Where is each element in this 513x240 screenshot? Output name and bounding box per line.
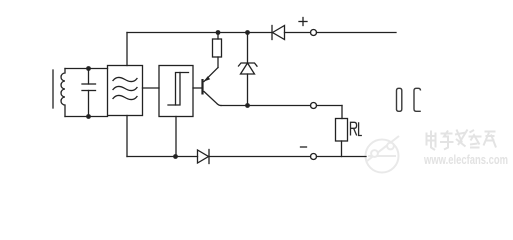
terminal circle +: [311, 30, 317, 36]
diode D1 (top, cathode left): [272, 26, 285, 40]
oscillator block U1: [108, 66, 143, 116]
diode D3 (bottom, cathode right): [198, 150, 210, 164]
+ rail top wire: [127, 32, 396, 34]
terminal circle middle: [311, 103, 317, 109]
capacitor C1: [82, 69, 96, 117]
wire: box1 bottom to bottom rail: [126, 116, 128, 157]
wire: RL to bottom rail: [341, 141, 343, 157]
middle output rail: [221, 105, 342, 107]
wire: box1 to box2: [143, 87, 160, 89]
wire: box2 bottom to bottom rail: [175, 117, 177, 157]
terminal circle -: [311, 154, 317, 160]
wire: rail corner down to RL: [341, 106, 343, 119]
oscillator symbol tildes: [113, 77, 137, 99]
Schmitt hysteresis symbol: [168, 73, 189, 106]
label RL: [351, 122, 362, 135]
node: zener bottom junction: [245, 103, 250, 108]
DC label letter D: [397, 88, 402, 111]
watermark logo circle: [366, 136, 400, 173]
DC label letter C: [414, 88, 421, 111]
node: zener top junction: [245, 30, 250, 35]
Schmitt trigger block U2: [159, 66, 193, 117]
wire: box1 top to + rail: [126, 33, 128, 66]
node: box2 bottom rail junction: [173, 154, 178, 159]
wire top: coil to box1: [65, 68, 108, 70]
zener diode D2: [239, 33, 258, 106]
node: R1 top junction: [216, 30, 221, 35]
resistor R1: [213, 39, 222, 57]
wire bottom: coil to box1: [65, 116, 108, 118]
node: capacitor bottom junction: [86, 114, 91, 119]
node: capacitor top junction: [86, 66, 91, 71]
wire: Q1 emitter to R1: [217, 57, 219, 68]
plus label: [299, 18, 307, 26]
wire: R1 to + rail: [217, 33, 219, 40]
svg-text:www.elecfans.com: www.elecfans.com: [423, 153, 508, 167]
transistor Q1 (PNP): [203, 68, 222, 106]
watermark chinese text 电子发烧友: [426, 130, 497, 151]
resistor RL: [336, 119, 348, 142]
wire: base of Q1: [193, 87, 203, 89]
inductor L1 sensing coil: [61, 69, 65, 117]
minus label: [301, 146, 307, 148]
coil core bar: [52, 70, 54, 108]
bottom rail: [127, 156, 366, 158]
